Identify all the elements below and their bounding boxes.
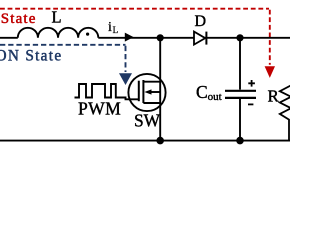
diode cathode bar bbox=[205, 32, 207, 45]
bottom rail wire bbox=[0, 140, 290, 142]
capacitor minus polarity bbox=[248, 103, 253, 105]
capacitor bottom plate bbox=[225, 97, 256, 99]
mosfet drain stub bbox=[143, 81, 160, 83]
node: switch source on bottom rail bbox=[156, 137, 164, 145]
svg-text:ON State: ON State bbox=[0, 48, 62, 65]
transistor SW (N-channel MOSFET) bbox=[128, 38, 165, 141]
svg-text:PWM: PWM bbox=[78, 99, 121, 119]
svg-text:i: i bbox=[108, 20, 112, 35]
svg-text:C: C bbox=[196, 82, 208, 102]
node: capacitor on bottom rail bbox=[236, 137, 244, 145]
svg-text:D: D bbox=[195, 13, 207, 30]
svg-text:SW: SW bbox=[134, 111, 161, 131]
mosfet drain-source vertical lead bbox=[159, 38, 161, 141]
blue arrowhead (ON state, into switch) bbox=[119, 73, 132, 85]
mosfet source stub bbox=[143, 102, 160, 104]
capacitor Cout leads bbox=[239, 38, 241, 90]
capacitor top plate bbox=[225, 90, 256, 92]
red arrowhead (OFF state, into load) bbox=[265, 66, 275, 78]
svg-text:out: out bbox=[208, 91, 222, 103]
inductor current arrowhead on wire bbox=[125, 33, 134, 42]
top rail wire (input to diode to output) bbox=[0, 37, 18, 39]
mosfet gate bar bbox=[138, 81, 140, 102]
inductor polarity dot bbox=[86, 33, 89, 36]
svg-text:L: L bbox=[52, 8, 62, 27]
mosfet body circle bbox=[128, 74, 165, 111]
svg-text:L: L bbox=[113, 25, 119, 35]
mosfet channel bar bbox=[142, 80, 144, 103]
load resistor R (cut at right edge) bbox=[280, 38, 291, 141]
mosfet body arrow stub bbox=[151, 91, 160, 93]
capacitor plus polarity bbox=[248, 80, 255, 87]
inductor L bbox=[18, 28, 99, 38]
mosfet arrowhead pointing to channel bbox=[144, 89, 151, 94]
node: switch-diode junction bbox=[157, 34, 164, 41]
svg-text:R: R bbox=[268, 86, 280, 105]
PWM gate drive waveform bbox=[75, 84, 140, 99]
svg-text:State: State bbox=[1, 11, 37, 27]
ON-state blue dashed path bbox=[0, 45, 126, 72]
diode D bbox=[194, 32, 205, 45]
node: diode-output junction bbox=[236, 34, 243, 41]
OFF-state red dashed path bbox=[0, 9, 270, 65]
